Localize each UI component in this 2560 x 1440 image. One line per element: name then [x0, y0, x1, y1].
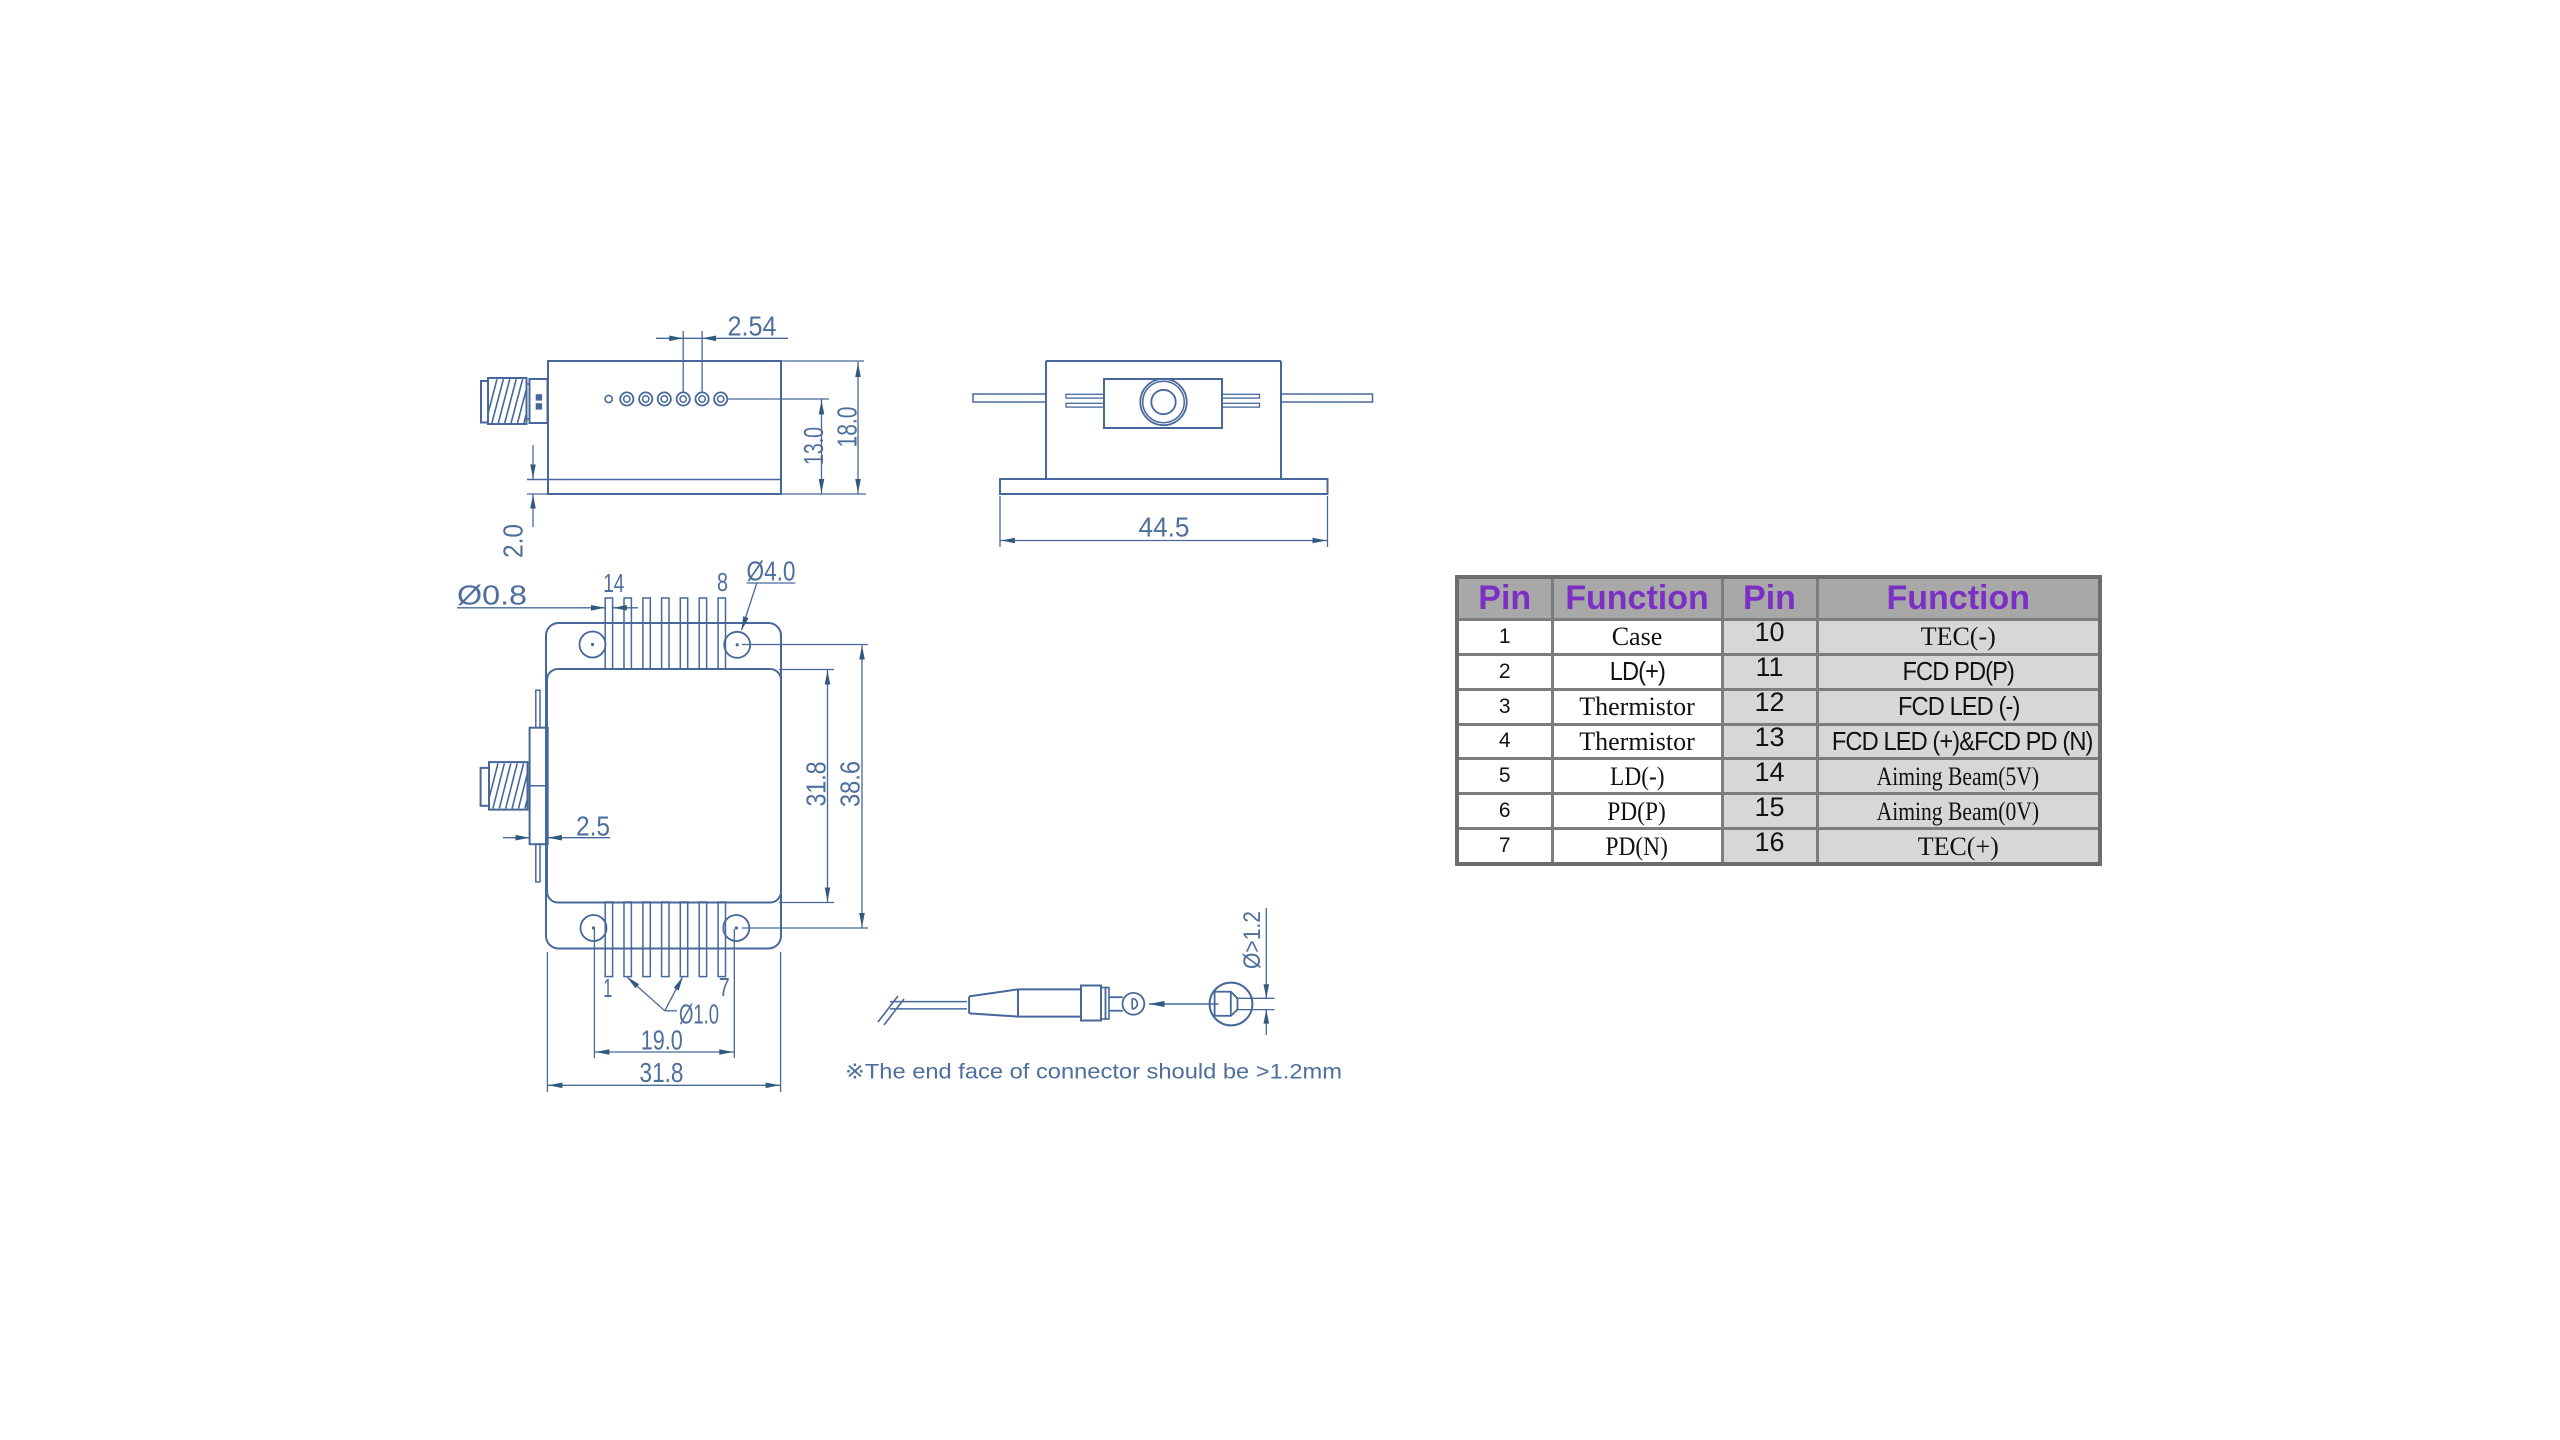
dim 38.6: dimension line — [861, 645, 863, 929]
dim Ø0.8: leader and arrows — [457, 607, 605, 609]
side view: pin feedthrough circles 2-7 — [620, 392, 633, 405]
dim 18.0: top extension line — [781, 360, 864, 362]
side view: connector separator ring — [526, 384, 529, 419]
svg-text:44.5: 44.5 — [1139, 512, 1190, 543]
connector detail: end-face circle — [1210, 983, 1253, 1026]
top view: mounting flange outline — [546, 623, 781, 949]
side view: connector nut block — [530, 379, 548, 423]
front view: left lead wire — [973, 394, 1046, 402]
dim 44.5: extension lines — [999, 496, 1001, 547]
svg-text:※The end face of connector sho: ※The end face of connector should be >1.… — [845, 1061, 1342, 1084]
svg-text:38.6: 38.6 — [835, 761, 866, 807]
front view: body outline — [1046, 360, 1281, 362]
connector detail: ferrule tip circle — [1123, 993, 1145, 1015]
dim Ø4.0: leader — [742, 583, 757, 630]
side view: base plate top line (2.0 step) — [527, 479, 781, 481]
dim Ø>1.2: extension lines — [1236, 997, 1275, 999]
top view: mounting hole bottom-right — [723, 915, 749, 941]
connector detail: stem — [1109, 996, 1123, 998]
svg-text:18.0: 18.0 — [832, 407, 863, 448]
dim 2.54: extension lines — [682, 331, 684, 392]
top view: pins 14-8 (top row) — [605, 598, 612, 669]
svg-text:Ø1.0: Ø1.0 — [679, 999, 719, 1030]
pin function table — [1455, 575, 2102, 866]
side view: small pin hole 1 — [605, 395, 612, 402]
top view: threaded barrel — [489, 762, 528, 810]
side view: module body outline — [548, 361, 781, 494]
top view: mounting hole top-left — [580, 632, 606, 658]
side view: base plate bottom extension to left — [527, 493, 549, 495]
svg-text:2.54: 2.54 — [728, 311, 777, 342]
svg-text:13.0: 13.0 — [798, 427, 829, 465]
top view: mounting hole bottom-left — [581, 915, 607, 941]
connector detail: end-face nose — [1231, 992, 1238, 1016]
dim 18.0: dimension line — [857, 362, 859, 494]
svg-text:Ø4.0: Ø4.0 — [747, 556, 796, 587]
side view: nut detail square upper — [536, 395, 541, 400]
front view: inner leads right — [1222, 394, 1260, 398]
dim 2.54: dimension line — [656, 337, 788, 339]
top view: connector plate — [530, 728, 548, 845]
dim 38.6: extension lines — [742, 644, 868, 646]
svg-text:31.8: 31.8 — [640, 1057, 684, 1088]
top view: connector plate divider — [530, 785, 548, 787]
dim Ø>1.2: dimension line — [1265, 908, 1267, 998]
svg-text:7: 7 — [719, 972, 730, 1002]
dim 2.0: dimension line — [532, 445, 534, 479]
front view: lens outer ring — [1140, 379, 1186, 425]
dim Ø4.0: underline — [747, 582, 796, 584]
side view: nut detail square lower — [536, 404, 541, 409]
top view: fiber stub lower — [536, 844, 540, 882]
connector detail: fiber cable — [890, 1001, 967, 1003]
svg-text:1: 1 — [603, 973, 612, 1003]
top view: mounting hole top-right — [724, 632, 750, 658]
front view: inner leads left — [1066, 394, 1104, 398]
svg-text:Ø>1.2: Ø>1.2 — [1239, 911, 1266, 969]
dim 31.8 (body height): dimension line — [827, 670, 829, 903]
front view: right lead wire — [1281, 394, 1373, 402]
side view: threaded fiber connector barrel — [488, 378, 527, 424]
top view: module body square — [547, 669, 781, 903]
connector detail: boot taper — [968, 997, 970, 1014]
dim 19.0: dimension line — [594, 1051, 734, 1053]
svg-text:8: 8 — [717, 567, 728, 597]
dim 31.8 (body height): extension lines — [779, 669, 834, 671]
dim 13.0: leader from pin row — [728, 398, 830, 400]
front view: lens housing — [1104, 379, 1222, 428]
dim 2.5: dimension line — [503, 837, 529, 839]
side view: fiber ferrule end cap — [481, 381, 488, 423]
dim 13.0: dimension line — [821, 399, 823, 494]
front view: lens inner circle — [1151, 390, 1175, 414]
svg-text:31.8: 31.8 — [801, 762, 832, 807]
connector detail: ferrule tip notch — [1131, 999, 1133, 1009]
front view: base plate — [1000, 479, 1328, 494]
side view: bottom-right extension line — [781, 493, 866, 495]
svg-text:14: 14 — [603, 568, 624, 598]
svg-text:Ø0.8: Ø0.8 — [457, 580, 527, 611]
dim 44.5: dimension line — [1000, 540, 1328, 542]
dim 19.0: extension lines — [593, 929, 595, 1058]
connector detail: connector body — [1018, 988, 1081, 990]
connector detail: cable break slashes — [878, 996, 898, 1022]
connector detail: rings — [1101, 988, 1106, 1020]
top view: fiber stub upper — [536, 690, 540, 728]
svg-text:2.0: 2.0 — [498, 524, 529, 558]
connector detail: mating arrow — [1149, 1003, 1219, 1005]
top view: barrel end cap — [481, 768, 489, 806]
connector detail: collar — [1081, 986, 1101, 1021]
dim Ø1.0: leader arrows — [628, 978, 665, 1011]
top view: pins 1-7 (bottom row) — [605, 902, 612, 977]
dim 31.8 (flange width): extension lines — [546, 952, 548, 1092]
svg-text:19.0: 19.0 — [641, 1025, 683, 1056]
dim 31.8 (flange width): dimension line — [547, 1084, 780, 1086]
svg-text:2.5: 2.5 — [576, 811, 610, 842]
connector detail: end-face key rectangle — [1215, 992, 1231, 1016]
